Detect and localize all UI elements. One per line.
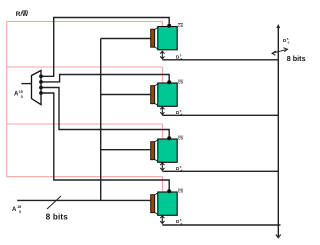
svg-text:CS: CS [178, 81, 184, 85]
svg-text:CS: CS [178, 24, 184, 28]
svg-text:8 bits: 8 bits [46, 213, 68, 222]
svg-text:R/W: R/W [16, 11, 28, 18]
svg-text:15: 15 [17, 205, 21, 209]
svg-text:0: 0 [19, 210, 21, 214]
svg-text:CS: CS [178, 137, 184, 141]
svg-text:CS: CS [178, 190, 184, 194]
svg-text:15: 15 [19, 90, 23, 94]
svg-text:0: 0 [21, 95, 23, 99]
svg-text:8 bits: 8 bits [287, 54, 306, 63]
